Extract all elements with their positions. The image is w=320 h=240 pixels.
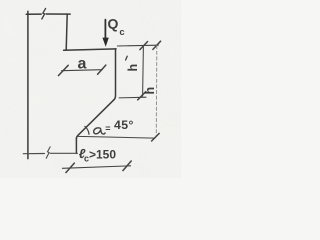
break symbol top bbox=[42, 8, 46, 19]
dimension line a bbox=[62, 70, 103, 71]
tick h bottom bbox=[152, 133, 160, 141]
wire top edge left segment bbox=[26, 13, 41, 15]
wire bottom edge right segment bbox=[50, 152, 77, 154]
svg-text:c: c bbox=[119, 27, 124, 38]
svg-text:=: = bbox=[105, 123, 110, 133]
prime mark of h-prime bbox=[126, 56, 128, 60]
extension line top right bbox=[117, 44, 158, 47]
extension line at bevel top corner bbox=[119, 96, 146, 99]
dimension line l>150 bbox=[62, 166, 130, 169]
svg-text:h: h bbox=[143, 87, 157, 95]
svg-text:h: h bbox=[126, 64, 140, 72]
angle arc alpha bbox=[85, 126, 89, 134]
tick left of dimension l bbox=[66, 163, 74, 173]
wire right face of member bbox=[114, 49, 116, 100]
tick right of dimension l bbox=[123, 161, 131, 171]
tick h top bbox=[153, 41, 161, 49]
tick h-prime bottom bbox=[138, 92, 146, 100]
wire top edge right segment bbox=[46, 13, 70, 15]
tick h-prime top bbox=[140, 42, 148, 50]
tick left of dimension a bbox=[58, 65, 68, 75]
svg-text:Q: Q bbox=[108, 16, 119, 32]
wire 45-degree bevel diagonal bbox=[76, 100, 114, 139]
wire vertex vertical bbox=[75, 139, 77, 154]
wire step edge vertical bbox=[66, 14, 67, 50]
label alpha bbox=[94, 128, 105, 134]
tick right of dimension a bbox=[98, 65, 106, 74]
dimension line h-prime bbox=[142, 46, 145, 97]
wire bottom edge left segment bbox=[23, 153, 44, 155]
paper background bbox=[0, 0, 181, 178]
break symbol bottom bbox=[46, 147, 50, 158]
svg-text:45°: 45° bbox=[114, 118, 134, 132]
wire left face of member bbox=[27, 11, 29, 158]
load arrowhead Qc bbox=[102, 38, 108, 47]
dimension line h (faint dashed) bbox=[155, 46, 158, 137]
svg-text:>150: >150 bbox=[89, 147, 116, 161]
angle reference line bbox=[78, 136, 155, 138]
load arrow Qc shaft bbox=[104, 20, 106, 39]
wire ledge seat bbox=[64, 49, 116, 50]
svg-text:a: a bbox=[78, 55, 87, 72]
